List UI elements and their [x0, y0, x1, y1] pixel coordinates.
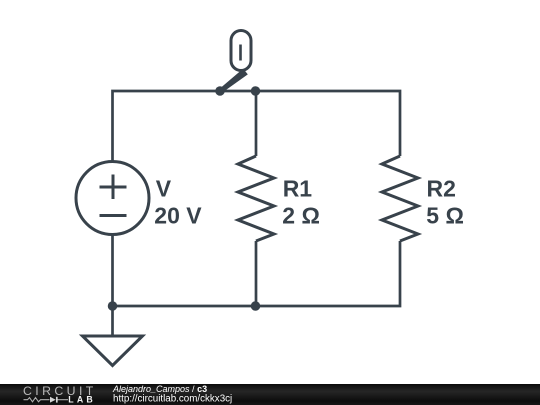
- svg-text:LAB: LAB: [68, 395, 96, 405]
- wire R1 top stub: [255, 91, 258, 156]
- label R1 2ohm: [282, 176, 320, 229]
- node A probe tap: [215, 86, 225, 96]
- current probe I: [219, 31, 251, 93]
- node C source bottom junction: [108, 301, 118, 311]
- svg-text:20 V: 20 V: [154, 203, 202, 229]
- node B R1 top junction: [251, 86, 261, 96]
- svg-text:R1: R1: [283, 176, 313, 202]
- voltage source V: [76, 162, 149, 235]
- wire R1 bottom stub: [255, 241, 258, 306]
- label V 20 V: [154, 176, 202, 229]
- ground: [83, 336, 143, 366]
- svg-text:5 Ω: 5 Ω: [426, 203, 464, 229]
- footer bar: [0, 384, 540, 405]
- resistor R1: [238, 156, 274, 241]
- wire bottom rail: [113, 241, 401, 306]
- resistor R2: [382, 156, 418, 241]
- svg-text:V: V: [156, 176, 172, 202]
- svg-text:2 Ω: 2 Ω: [282, 203, 320, 229]
- wire top rail (left riser, top, right riser): [113, 91, 401, 162]
- svg-text:R2: R2: [427, 176, 456, 202]
- label R2 5ohm: [426, 176, 464, 229]
- node D R1 bottom junction: [251, 301, 261, 311]
- svg-text:http://circuitlab.com/ckkx3cj: http://circuitlab.com/ckkx3cj: [113, 393, 232, 404]
- svg-text:Alejandro_Campos / c3: Alejandro_Campos / c3: [112, 384, 207, 394]
- wire left rail bottom (source to ground): [111, 235, 114, 337]
- circuitlab logo: [23, 384, 97, 404]
- footer credits: [112, 384, 232, 405]
